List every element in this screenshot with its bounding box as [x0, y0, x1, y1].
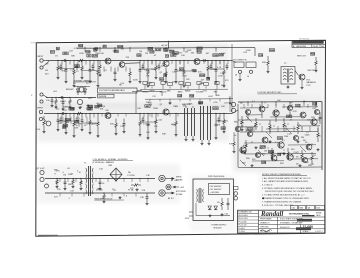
svg-text:(P. MODELS) + MARKED: (P. MODELS) + MARKED: [93, 161, 115, 164]
svg-text:Randall: Randall: [260, 211, 283, 218]
svg-text:68K: 68K: [98, 105, 102, 107]
svg-text:250K: 250K: [182, 76, 187, 78]
svg-text:1M: 1M: [164, 75, 167, 77]
svg-text:SCHEMATIC, GUITAR AMP: SCHEMATIC, GUITAR AMP: [280, 222, 303, 225]
svg-text:AT 8.2: AT 8.2: [168, 197, 175, 200]
svg-text:2.2K: 2.2K: [63, 110, 68, 112]
svg-text:PERFORMER: PERFORMER: [260, 219, 272, 221]
svg-text:REVISIONS: REVISIONS: [299, 39, 310, 41]
svg-text:4.7K: 4.7K: [156, 48, 161, 51]
svg-text:RG-80-120: RG-80-120: [280, 227, 289, 229]
svg-text:1M: 1M: [45, 70, 48, 72]
svg-text:SCHEMATIC NO.: SCHEMATIC NO.: [238, 211, 252, 214]
svg-text:100K: 100K: [218, 76, 223, 78]
svg-text:500K: 500K: [200, 75, 205, 77]
svg-text:BASS: BASS: [178, 91, 184, 94]
svg-text:AT +102: AT +102: [171, 179, 179, 182]
svg-text:22K: 22K: [149, 48, 153, 50]
svg-text:4.7K: 4.7K: [69, 108, 74, 111]
svg-text:TREBLE: TREBLE: [142, 92, 150, 94]
svg-text:250K: 250K: [187, 50, 192, 52]
svg-text:DRAWN JG: DRAWN JG: [260, 222, 270, 225]
svg-text:F 1/2T 1: F 1/2T 1: [316, 231, 323, 233]
svg-text:120V: 120V: [185, 218, 190, 220]
svg-text:SD-21-080-1: SD-21-080-1: [238, 215, 248, 217]
svg-text:SD-21-120-1: SD-21-120-1: [238, 218, 248, 220]
svg-text:IRVINE: IRVINE: [316, 213, 322, 215]
svg-text:MIDDLE: MIDDLE: [160, 92, 167, 94]
svg-text:PC-21-120: PC-21-120: [238, 225, 246, 227]
svg-text:PC-21-080: PC-21-080: [238, 221, 246, 223]
svg-text:21-080-1: 21-080-1: [238, 228, 245, 230]
svg-text:VOLUME: VOLUME: [196, 92, 204, 94]
svg-text:21-120-1: 21-120-1: [238, 231, 245, 233]
svg-text:CHECKED: CHECKED: [260, 227, 269, 229]
svg-text:SCALE -: SCALE -: [303, 230, 310, 233]
svg-text:.0047: .0047: [208, 96, 214, 98]
